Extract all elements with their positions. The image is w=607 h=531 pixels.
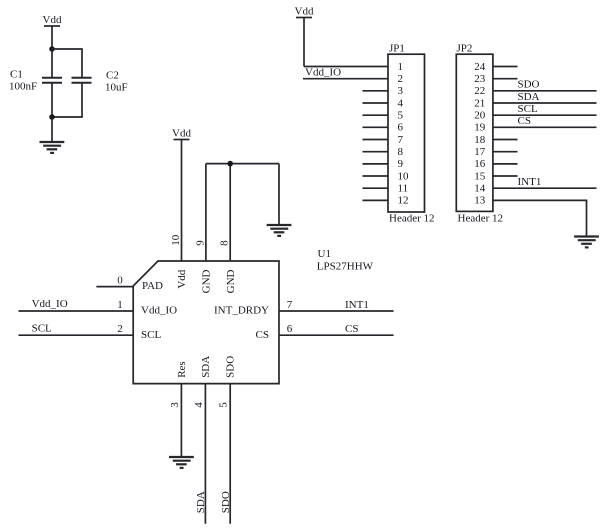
- svg-text:CS: CS: [345, 323, 358, 335]
- wire C2 bottom to lower node: [52, 83, 82, 117]
- svg-text:Header 12: Header 12: [458, 213, 504, 225]
- svg-text:INT1: INT1: [518, 176, 542, 188]
- svg-text:CS: CS: [518, 115, 531, 127]
- wire U1 pin 5 (SDO): [229, 384, 231, 524]
- svg-text:JP1: JP1: [389, 43, 405, 55]
- svg-text:12: 12: [398, 195, 409, 207]
- svg-text:18: 18: [474, 134, 486, 146]
- node junction bottom of capacitors: [49, 114, 55, 120]
- svg-text:Vdd: Vdd: [172, 128, 191, 140]
- wire U1 pin 9 (GND): [205, 164, 207, 261]
- JP1 pin numbers 1-12: [398, 61, 410, 207]
- svg-text:100nF: 100nF: [9, 81, 37, 93]
- wire U1 pin 4 (SDA): [204, 384, 206, 524]
- svg-text:INT1: INT1: [345, 299, 369, 311]
- svg-text:3: 3: [398, 85, 404, 97]
- wire INT1 (JP2 pin 14): [493, 187, 597, 189]
- wire GND bus to ground: [278, 164, 280, 225]
- svg-text:9: 9: [194, 240, 206, 246]
- svg-text:Header 12: Header 12: [389, 213, 435, 225]
- svg-text:U1: U1: [318, 248, 331, 260]
- capacitor C2: [72, 78, 92, 83]
- wire CS (JP2 pin 19): [493, 126, 597, 128]
- ground (U1 pin 3): [169, 457, 194, 468]
- capacitor C1: [42, 78, 62, 83]
- wire SDA (JP2 pin 21): [493, 102, 597, 104]
- wire Vdd node to C1 top: [51, 49, 53, 78]
- svg-text:C2: C2: [106, 69, 119, 81]
- svg-text:9: 9: [398, 158, 404, 170]
- svg-text:21: 21: [474, 97, 485, 109]
- svg-text:C1: C1: [10, 69, 23, 81]
- connector JP2: [456, 54, 493, 211]
- power symbol Vdd (top-left): [44, 26, 60, 49]
- label C2 value: [105, 69, 128, 93]
- svg-text:6: 6: [398, 122, 404, 134]
- svg-text:JP2: JP2: [457, 43, 473, 55]
- svg-text:4: 4: [193, 402, 205, 408]
- wire U1 pin 6 (CS): [279, 334, 394, 336]
- op chip U1 body: [133, 261, 279, 384]
- power symbol Vdd (top-middle): [296, 18, 312, 67]
- wire Vdd_IO to U1 pin 1: [19, 310, 134, 312]
- wire node to ground: [51, 117, 53, 142]
- svg-text:15: 15: [474, 170, 486, 182]
- svg-text:Vdd_IO: Vdd_IO: [32, 298, 68, 310]
- svg-text:5: 5: [218, 402, 230, 408]
- svg-text:17: 17: [474, 146, 486, 158]
- svg-text:8: 8: [398, 146, 404, 158]
- svg-text:GND: GND: [201, 269, 213, 293]
- svg-text:Vdd: Vdd: [295, 6, 314, 18]
- svg-text:SCL: SCL: [141, 329, 161, 341]
- node junction top of capacitors: [49, 46, 55, 52]
- wire SCL to U1 pin 2: [19, 334, 134, 336]
- svg-text:3: 3: [169, 402, 181, 408]
- JP2 pin 23 stub: [493, 78, 518, 80]
- svg-text:11: 11: [398, 183, 409, 195]
- svg-text:SCL: SCL: [518, 103, 538, 115]
- svg-text:4: 4: [398, 97, 404, 109]
- power symbol Vdd (above U1): [174, 140, 190, 262]
- svg-text:7: 7: [398, 134, 404, 146]
- svg-text:Vdd_IO: Vdd_IO: [141, 305, 177, 317]
- svg-text:SCL: SCL: [32, 322, 52, 334]
- ground (JP2 pin 13): [574, 237, 599, 248]
- ground (below C1/C2): [40, 142, 65, 153]
- svg-text:13: 13: [474, 195, 486, 207]
- wire GND bus horizontal: [206, 163, 279, 165]
- wire U1 pin 0 (PAD) stub: [96, 286, 133, 288]
- JP2 pin 15 stub: [493, 175, 518, 177]
- wire SDO (JP2 pin 22): [493, 90, 597, 92]
- JP2 pin 17 stub: [493, 151, 518, 153]
- svg-text:1: 1: [398, 61, 404, 73]
- svg-text:SDA: SDA: [195, 491, 207, 513]
- wire U1 pin 7 (INT_DRDY) to INT1: [279, 310, 394, 312]
- svg-text:0: 0: [117, 275, 123, 287]
- svg-text:GND: GND: [225, 269, 237, 293]
- svg-text:SDO: SDO: [225, 356, 237, 378]
- wire C1 bottom to lower node: [51, 83, 53, 117]
- svg-text:8: 8: [219, 240, 231, 246]
- svg-text:CS: CS: [256, 329, 269, 341]
- wire SCL (JP2 pin 20): [493, 114, 597, 116]
- svg-text:LPS27HHW: LPS27HHW: [317, 260, 374, 272]
- wire Vdd to JP1 pin 1: [304, 66, 388, 68]
- svg-text:20: 20: [474, 110, 486, 122]
- svg-text:1: 1: [117, 299, 123, 311]
- svg-text:2: 2: [398, 73, 404, 85]
- svg-text:SDO: SDO: [220, 491, 232, 513]
- svg-text:SDA: SDA: [518, 91, 540, 103]
- JP2 pin 18 stub: [493, 139, 518, 141]
- wire branch to C2 top: [52, 49, 82, 78]
- node junction GND bus: [227, 161, 233, 167]
- svg-text:14: 14: [474, 183, 486, 195]
- svg-text:INT_DRDY: INT_DRDY: [214, 305, 269, 317]
- ground (U1 GND pins): [267, 225, 292, 236]
- svg-text:Vdd: Vdd: [43, 14, 62, 26]
- svg-text:23: 23: [474, 73, 486, 85]
- connector JP1: [388, 54, 425, 212]
- svg-text:19: 19: [474, 122, 486, 134]
- svg-text:22: 22: [474, 85, 485, 97]
- JP2 pin 16 stub: [493, 163, 518, 165]
- svg-text:Vdd: Vdd: [176, 269, 188, 288]
- svg-text:10: 10: [170, 234, 182, 246]
- svg-text:SDA: SDA: [200, 356, 212, 378]
- svg-text:16: 16: [474, 158, 486, 170]
- wire JP2 pin 13 to ground: [493, 200, 587, 236]
- svg-text:Vdd_IO: Vdd_IO: [305, 66, 341, 78]
- svg-text:7: 7: [287, 299, 293, 311]
- svg-text:24: 24: [474, 61, 486, 73]
- svg-text:2: 2: [117, 323, 123, 335]
- label C1 value: [9, 69, 37, 93]
- wire U1 pin 3 (Res) to ground: [180, 384, 182, 457]
- svg-text:PAD: PAD: [142, 280, 163, 292]
- wire U1 pin 8 (GND): [229, 164, 231, 261]
- wire Vdd_IO to JP1 pin 2: [303, 78, 388, 80]
- svg-text:10: 10: [398, 170, 410, 182]
- svg-text:10uF: 10uF: [105, 81, 128, 93]
- JP2 pin numbers 24-13: [474, 61, 486, 207]
- JP1 pin stubs 3-12: [363, 91, 389, 201]
- svg-text:SDO: SDO: [518, 79, 540, 91]
- JP2 pin 24 stub: [493, 66, 518, 68]
- svg-text:5: 5: [398, 110, 404, 122]
- svg-text:Res: Res: [176, 361, 188, 378]
- svg-text:6: 6: [287, 323, 293, 335]
